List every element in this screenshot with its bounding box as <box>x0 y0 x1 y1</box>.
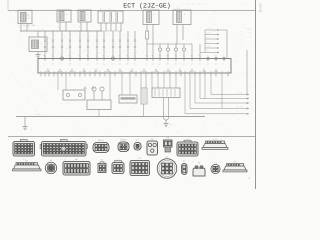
svg-text:31: 31 <box>180 74 182 77</box>
svg-text:·2·: ·2· <box>206 32 210 35</box>
svg-text:14: 14 <box>119 63 121 66</box>
svg-text:14: 14 <box>191 63 193 66</box>
svg-text:15: 15 <box>48 74 50 77</box>
svg-text:2: 2 <box>52 54 53 57</box>
svg-text:··: ·· <box>105 34 107 37</box>
svg-text:3: 3 <box>53 74 54 77</box>
svg-text:·····: ····· <box>89 105 95 108</box>
svg-text:1: 1 <box>104 74 105 77</box>
svg-text:21: 21 <box>140 74 142 77</box>
svg-text:··: ·· <box>63 43 65 46</box>
svg-text:··: ·· <box>81 43 83 46</box>
svg-text:··: ·· <box>129 51 131 54</box>
svg-text:··: ·· <box>129 43 131 46</box>
svg-text:2JZ–GE: 2JZ–GE <box>259 3 262 13</box>
svg-text:10: 10 <box>152 54 154 57</box>
svg-text:··: ·· <box>114 43 116 46</box>
svg-text:4: 4 <box>61 54 62 57</box>
svg-text:31: 31 <box>175 74 177 77</box>
svg-text:7: 7 <box>79 63 80 66</box>
svg-text:8: 8 <box>57 74 58 77</box>
svg-text:25: 25 <box>52 63 54 66</box>
svg-text:··: ·· <box>71 34 73 37</box>
svg-text:··: ·· <box>114 34 116 37</box>
svg-text:FL AM2 30A ·· ···· ···: FL AM2 30A ·· ···· ··· <box>23 24 49 27</box>
svg-text:15: 15 <box>215 63 217 66</box>
svg-text:16: 16 <box>163 74 165 77</box>
svg-text:··: ·· <box>63 51 65 54</box>
svg-text:··: ·· <box>66 37 68 40</box>
svg-text:E· ···: E· ··· <box>171 124 178 127</box>
svg-text:··: ·· <box>98 34 100 37</box>
svg-text:··: ·· <box>46 43 48 46</box>
svg-text:W2(A): W2(A) <box>21 138 27 141</box>
svg-text:21: 21 <box>103 63 105 66</box>
svg-text:18: 18 <box>175 63 177 66</box>
svg-text:··: ·· <box>114 51 116 54</box>
svg-text:24: 24 <box>207 63 209 66</box>
svg-text:E6(B): E6(B) <box>120 139 126 142</box>
svg-text:··: ·· <box>84 48 86 51</box>
svg-text:··: ·· <box>72 12 74 15</box>
svg-text:··: ·· <box>236 100 238 103</box>
svg-text:28: 28 <box>194 74 196 77</box>
svg-text:7: 7 <box>96 54 97 57</box>
svg-text:··: ·· <box>81 51 83 54</box>
svg-text:··: ·· <box>186 51 188 54</box>
svg-text:··: ·· <box>240 42 242 45</box>
svg-text:··: ·· <box>129 34 131 37</box>
svg-text:··: ·· <box>240 30 242 33</box>
svg-text:17: 17 <box>44 74 46 77</box>
svg-text:22: 22 <box>79 54 81 57</box>
svg-text:··: ·· <box>98 51 100 54</box>
svg-text:3: 3 <box>146 63 147 66</box>
svg-text:20: 20 <box>103 54 105 57</box>
svg-text:··: ·· <box>54 34 56 37</box>
svg-text:··: ·· <box>136 51 138 54</box>
svg-text:··: ·· <box>162 51 164 54</box>
svg-text:···I··· ··· ··: ···I··· ··· ·· <box>34 113 51 116</box>
svg-text:··: ·· <box>121 51 123 54</box>
svg-text:1: 1 <box>184 74 185 77</box>
svg-text:··· ···· ·· ·· ···: ··· ···· ·· ·· ··· <box>23 28 45 31</box>
svg-text:26: 26 <box>215 74 217 77</box>
svg-text:6: 6 <box>134 54 135 57</box>
svg-text:25: 25 <box>151 74 153 77</box>
svg-text:··: ·· <box>98 43 100 46</box>
svg-text:23: 23 <box>175 54 177 57</box>
svg-text:··1 ··: ··1 ·· <box>206 27 213 30</box>
svg-text:··: ·· <box>34 15 36 18</box>
svg-text:21: 21 <box>152 63 154 66</box>
svg-text:··: ·· <box>105 51 107 54</box>
svg-text:14: 14 <box>94 74 96 77</box>
svg-text:17: 17 <box>65 74 67 77</box>
svg-text:16: 16 <box>167 63 169 66</box>
svg-text:·1· 2·: ·1· 2· <box>236 105 243 108</box>
svg-text:13: 13 <box>129 74 131 77</box>
svg-text:··: ·· <box>84 37 86 40</box>
svg-text:3: 3 <box>207 54 208 57</box>
svg-text:··: ·· <box>48 48 50 51</box>
svg-text:17: 17 <box>134 63 136 66</box>
svg-text:21: 21 <box>215 54 217 57</box>
svg-text:22: 22 <box>61 74 63 77</box>
svg-text:·:·I··: ·:·I·· <box>173 7 180 10</box>
svg-text:·····: ····· <box>240 3 246 6</box>
svg-text:··: ·· <box>150 51 152 54</box>
svg-text:2: 2 <box>189 74 190 77</box>
svg-text:11: 11 <box>109 74 111 77</box>
svg-text:20: 20 <box>204 74 206 77</box>
svg-text:24: 24 <box>199 54 201 57</box>
svg-text:··: ·· <box>66 48 68 51</box>
svg-text:26: 26 <box>167 54 169 57</box>
svg-text:··: ·· <box>240 38 242 41</box>
svg-text:28: 28 <box>191 54 193 57</box>
svg-text:··· ····: ··· ···· <box>60 102 70 105</box>
svg-text:13: 13 <box>145 74 147 77</box>
svg-text:··: ·· <box>133 37 135 40</box>
svg-text:20: 20 <box>127 63 129 66</box>
svg-text:1: 1 <box>183 54 184 57</box>
svg-text:·I··:···I·:··: ·I··:···I·:·· <box>99 8 115 11</box>
svg-text:18: 18 <box>74 74 76 77</box>
svg-text:21: 21 <box>112 63 114 66</box>
svg-text:··: ·· <box>119 37 121 40</box>
svg-text:1: 1 <box>61 63 62 66</box>
svg-text:··: ·· <box>102 37 104 40</box>
svg-text:··: ·· <box>89 51 91 54</box>
svg-text:·· ··: ·· ·· <box>150 32 156 35</box>
svg-text:18: 18 <box>69 63 71 66</box>
svg-text:5: 5 <box>87 54 88 57</box>
svg-text:··: ·· <box>48 37 50 40</box>
svg-text:15: 15 <box>199 63 201 66</box>
svg-text:15: 15 <box>199 74 201 77</box>
svg-text:·1·: ·1· <box>206 50 210 53</box>
svg-text:14: 14 <box>210 74 212 77</box>
svg-text:22: 22 <box>157 74 159 77</box>
svg-text:·:·· ·:I·: ·:·· ·:I· <box>143 7 154 10</box>
svg-text:··: ·· <box>238 50 240 53</box>
svg-text:··: ·· <box>138 99 140 101</box>
svg-text:··· ··: ··· ·· <box>120 113 127 116</box>
svg-text:8: 8 <box>44 54 45 57</box>
svg-text:··: ·· <box>54 51 56 54</box>
svg-text:·· ·· ·· ··: ·· ·· ·· ·· <box>156 41 169 44</box>
svg-text:6: 6 <box>99 74 100 77</box>
svg-text:·7: ·7 <box>40 43 42 46</box>
svg-text:· · · ·: · · · · <box>158 45 166 48</box>
svg-text:10: 10 <box>146 54 148 57</box>
svg-text:2: 2 <box>159 54 160 57</box>
svg-text:11: 11 <box>227 74 229 77</box>
svg-text:··: ·· <box>89 34 91 37</box>
svg-text:21: 21 <box>119 54 121 57</box>
svg-text:···: ··· <box>206 36 210 39</box>
svg-text:··: ·· <box>71 51 73 54</box>
svg-text:E6(A): E6(A) <box>98 139 104 142</box>
svg-text:7: 7 <box>40 74 41 77</box>
svg-text:28: 28 <box>79 74 81 77</box>
svg-text:27: 27 <box>127 54 129 57</box>
svg-text:··: ·· <box>240 34 242 37</box>
svg-text:13: 13 <box>183 63 185 66</box>
svg-text:8: 8 <box>223 63 224 66</box>
svg-text:··: ·· <box>236 111 238 114</box>
svg-text:·1· 2·: ·1· 2· <box>236 91 243 94</box>
svg-text:17: 17 <box>112 54 114 57</box>
svg-text:11: 11 <box>135 74 137 77</box>
svg-text:··: ·· <box>174 51 176 54</box>
svg-text:17: 17 <box>114 74 116 77</box>
svg-text:·I·:·I··.·I:·· :··: ·I·:·I··.·I:·· :·· <box>186 3 208 6</box>
svg-text:··: ·· <box>102 48 104 51</box>
svg-text:24: 24 <box>159 63 161 66</box>
svg-text:W2(B): W2(B) <box>61 138 67 141</box>
svg-text:5: 5 <box>221 74 222 77</box>
svg-text:4: 4 <box>69 74 70 77</box>
svg-text:··: ·· <box>46 51 48 54</box>
svg-text:25: 25 <box>169 74 171 77</box>
svg-text:6: 6 <box>44 63 45 66</box>
svg-text:20: 20 <box>69 54 71 57</box>
svg-text:··(·): ··(·) <box>60 158 66 161</box>
svg-text:17: 17 <box>96 63 98 66</box>
svg-text:6: 6 <box>223 54 224 57</box>
svg-text:··· ···: ··· ··· <box>152 85 160 88</box>
svg-text:·:·: ·:· <box>238 45 242 48</box>
svg-text:1· ··: 1· ·· <box>206 41 212 44</box>
svg-text:16: 16 <box>121 74 123 77</box>
svg-text:19: 19 <box>89 74 91 77</box>
svg-text:··: ·· <box>119 48 121 51</box>
svg-text:17: 17 <box>84 74 86 77</box>
svg-text:··: ·· <box>30 128 32 131</box>
svg-text:14: 14 <box>87 63 89 66</box>
